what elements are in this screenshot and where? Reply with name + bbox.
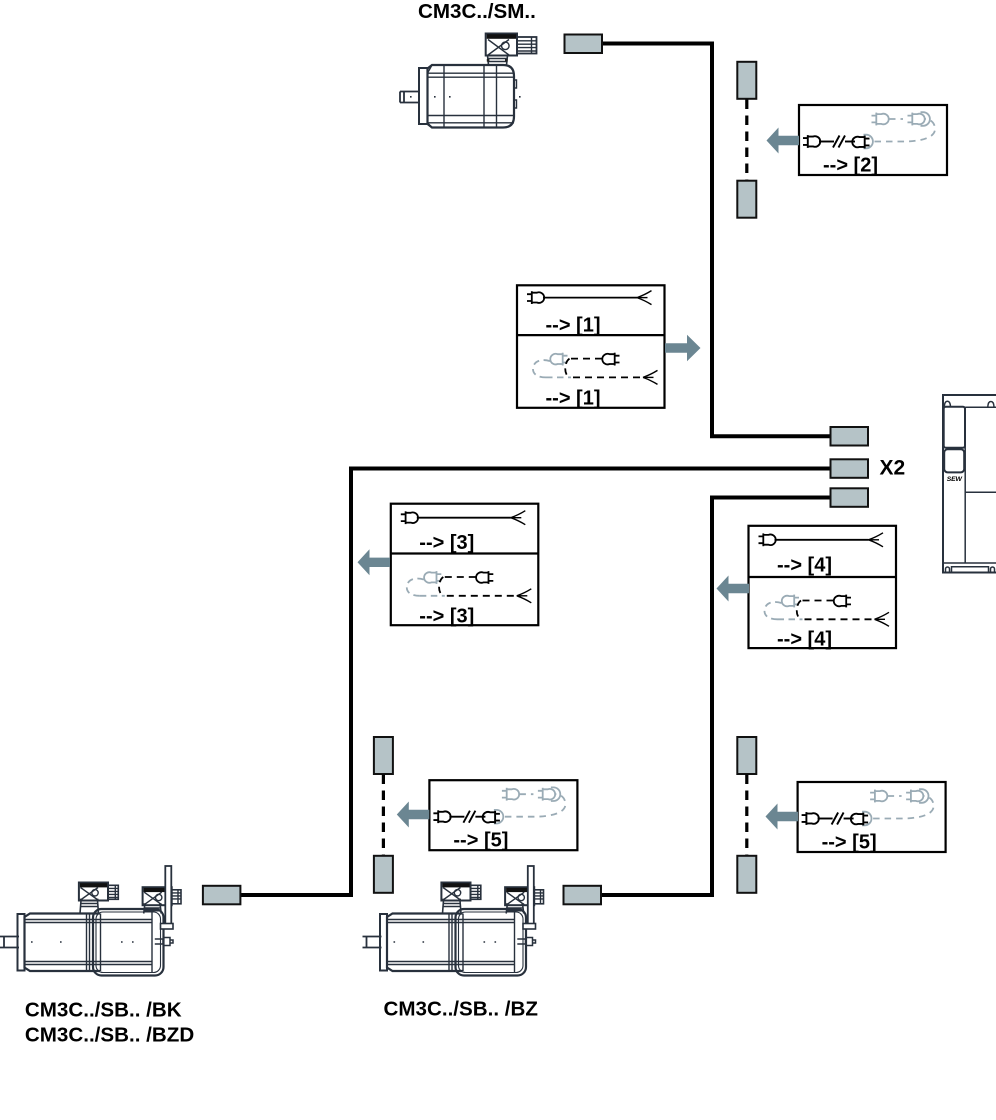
- svg-text:CM3C../SB.. /BZD: CM3C../SB.. /BZD: [25, 1023, 194, 1046]
- connector box: [486, 34, 517, 56]
- shaft: [0, 937, 19, 948]
- brake release nub: [155, 938, 173, 946]
- svg-text:--> [3]: --> [3]: [419, 532, 474, 554]
- wire: top motor lead to X2 top port: [602, 44, 831, 437]
- drive housing: [943, 395, 996, 573]
- brake housing (right section): [93, 909, 164, 976]
- connector module upper: [944, 407, 965, 448]
- wire: X2 bottom port to bottom-middle motor: [601, 498, 831, 896]
- cable box [3]: [391, 504, 539, 628]
- motor CM3C../SM.. (top): [400, 34, 537, 128]
- connector lead box top motor: [565, 35, 603, 54]
- mounting hook right: [988, 402, 994, 407]
- mounting rod: [165, 866, 171, 927]
- arrow into box [3]: [358, 549, 391, 575]
- svg-text:--> [1]: --> [1]: [546, 388, 601, 410]
- panel seams: [943, 407, 996, 563]
- svg-text:CM3C../SB.. /BZ: CM3C../SB.. /BZ: [384, 997, 538, 1020]
- connector neck: [488, 56, 508, 66]
- arrow into box [5] bottom middle: [397, 802, 430, 828]
- extension connector pair bottom right: [737, 737, 756, 893]
- mounting hook left: [944, 401, 950, 406]
- cable box [2]: [799, 105, 947, 177]
- connector 2: [144, 905, 162, 913]
- svg-text:--> [4]: --> [4]: [777, 629, 832, 651]
- svg-text:--> [2]: --> [2]: [823, 155, 878, 177]
- arrow into box [4]: [717, 576, 750, 602]
- cable box [5] bottom middle: [429, 780, 577, 852]
- body outline: [428, 65, 515, 128]
- connector module lower: [944, 449, 964, 472]
- arrow into box [5] bottom right: [766, 804, 799, 830]
- svg-text:--> [4]: --> [4]: [777, 554, 832, 576]
- svg-text:--> [1]: --> [1]: [546, 315, 601, 337]
- connector lead box X2 port 2: [831, 459, 869, 478]
- svg-text:CM3C../SM..: CM3C../SM..: [418, 0, 536, 23]
- body outline: [25, 914, 101, 972]
- right edge ticks: [514, 80, 517, 108]
- feet: [952, 567, 989, 573]
- connector lead box bottom-left motor: [203, 886, 241, 905]
- connector ribbed end: [517, 37, 537, 54]
- svg-text:--> [5]: --> [5]: [822, 832, 877, 854]
- wire: X2 middle port to bottom-left motor: [240, 469, 831, 896]
- svg-text:SEW: SEW: [947, 476, 963, 483]
- shaft: [400, 92, 420, 103]
- cable box [1]: [517, 285, 665, 409]
- body internal lines: [25, 920, 153, 965]
- flange: [18, 914, 25, 971]
- svg-text:CM3C../SB.. /BK: CM3C../SB.. /BK: [25, 998, 182, 1021]
- connector lead box X2 port 1: [831, 427, 869, 446]
- extension connector pair top right: [737, 62, 756, 218]
- cable box [4]: [749, 526, 897, 651]
- cable box [5] bottom right: [798, 782, 946, 854]
- flange: [419, 68, 428, 124]
- connector lead box X2 port 3: [831, 488, 869, 507]
- extension connector pair bottom middle: [374, 737, 393, 893]
- motor CM3C../SB.. /BZ (bottom middle): [363, 866, 544, 976]
- svg-text:--> [5]: --> [5]: [453, 830, 508, 852]
- svg-text:--> [3]: --> [3]: [419, 606, 474, 628]
- svg-text:X2: X2: [880, 457, 906, 480]
- connector 1: [80, 901, 99, 914]
- motor CM3C../SB.. /BK (bottom left): [0, 866, 181, 976]
- arrow out of box [1]: [665, 335, 701, 361]
- body internal lines: [428, 73, 515, 123]
- arrow into box [2]: [767, 128, 800, 154]
- connector lead box bottom-middle motor: [564, 886, 602, 905]
